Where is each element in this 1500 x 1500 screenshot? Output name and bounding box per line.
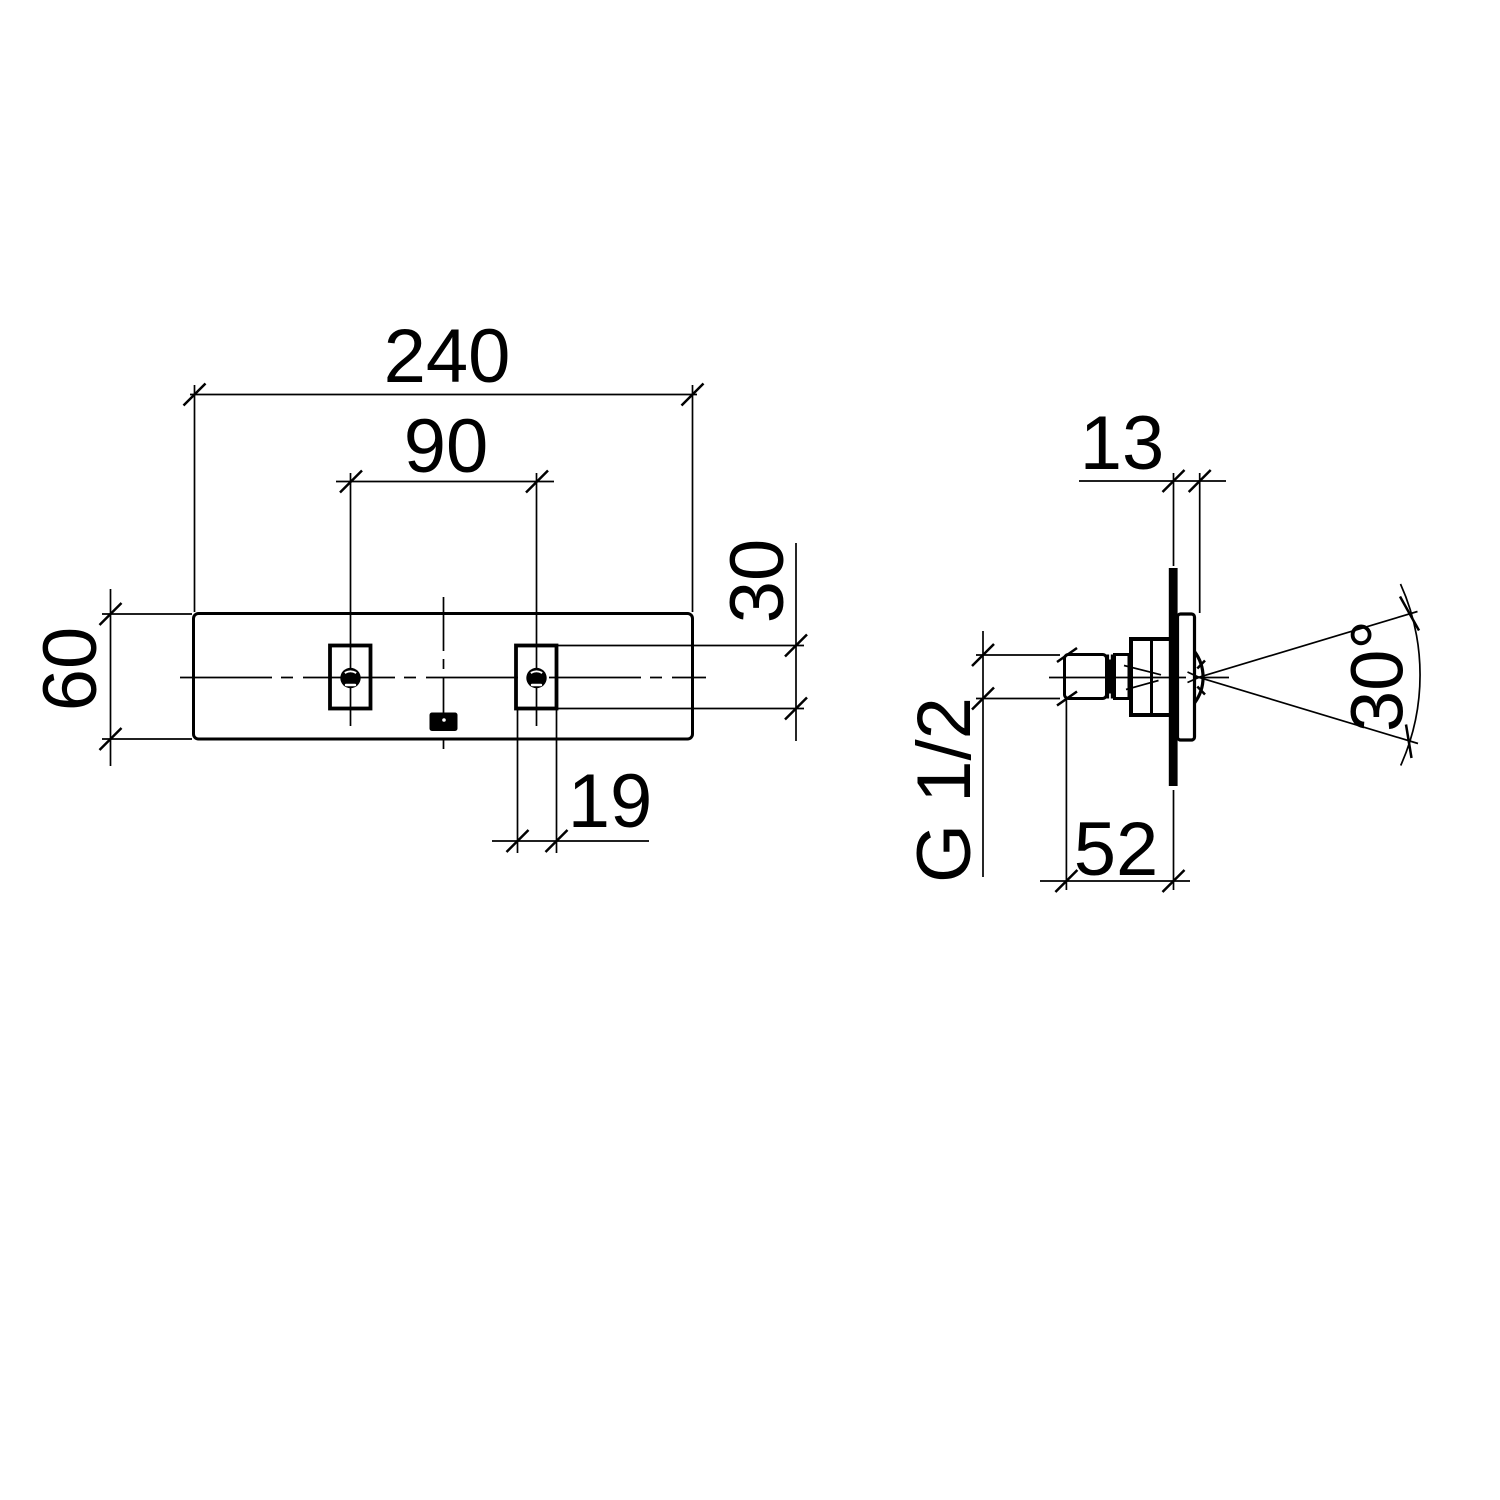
wire dimension line 52 — [1040, 880, 1190, 882]
wire extension line bottom 60 — [102, 738, 192, 740]
svg-text:19: 19 — [568, 759, 653, 844]
wire extension line left 19 — [517, 710, 519, 853]
node tick arc upper — [1400, 597, 1419, 631]
wire dimension line 13 — [1079, 480, 1226, 482]
node tick bottom 60 — [100, 728, 122, 750]
svg-text:30°: 30° — [1336, 620, 1419, 732]
node faceplate front outline 240x60 — [194, 614, 693, 740]
wire extension line right 240 — [692, 385, 694, 612]
wire spray cone upper line — [1199, 612, 1418, 678]
node tick right 13 — [1189, 470, 1211, 492]
node tick pipe corner bottom — [1057, 692, 1077, 706]
wire vertical centerline front view — [443, 597, 445, 752]
wire extension line top 60 — [102, 613, 192, 615]
wire dimension line G12 — [982, 631, 984, 877]
node tick top G12 — [972, 644, 994, 666]
wire extension line top 30 — [558, 645, 804, 647]
node tick pipe corner top — [1057, 648, 1077, 662]
wire dimension line 19 — [492, 840, 649, 842]
wire extension line bottom 30 — [558, 708, 804, 710]
svg-text:30: 30 — [715, 539, 800, 624]
wire horizontal centerline front view — [180, 677, 706, 679]
node dome tick lower — [1197, 687, 1205, 695]
node left valve window — [330, 646, 371, 709]
node tick top 30 — [785, 635, 807, 657]
node dome tick upper — [1197, 661, 1205, 669]
svg-text:60: 60 — [28, 627, 113, 712]
wire spray apex line lower — [1188, 677, 1200, 682]
wire valve body divider — [1150, 639, 1153, 715]
node tick left 90 — [340, 471, 362, 493]
wire extension line bottom G12 — [976, 698, 1060, 700]
node escutcheon plate side — [1178, 614, 1195, 740]
wire horizontal centerline side view — [1049, 677, 1229, 679]
wire dimension line 90 — [336, 481, 554, 483]
node tick left 19 — [507, 830, 529, 852]
wire extension line left 240 — [194, 385, 196, 612]
node tick bottom G12 — [972, 688, 994, 710]
node tick left 13 — [1163, 470, 1185, 492]
node tick right 52 — [1163, 870, 1185, 892]
node left screw — [340, 668, 360, 688]
node tick left 240 — [184, 384, 206, 406]
wire spray cone lower line — [1199, 677, 1418, 743]
wire angle arc 30deg — [1401, 584, 1421, 766]
wire spray back line lower — [1126, 681, 1159, 690]
node tick top 60 — [100, 603, 122, 625]
svg-text:G 1/2: G 1/2 — [902, 697, 987, 883]
svg-text:13: 13 — [1080, 401, 1165, 486]
node collar — [1115, 655, 1130, 699]
node seal ring black band — [1105, 655, 1115, 699]
wire extension line right 19 — [556, 710, 558, 853]
wire spray back line upper — [1124, 666, 1161, 675]
wire extension line right 13 — [1199, 473, 1201, 613]
node wall plate bar — [1169, 568, 1178, 786]
svg-text:90: 90 — [404, 404, 489, 489]
svg-text:240: 240 — [384, 314, 511, 399]
svg-text:52: 52 — [1074, 807, 1159, 892]
node tick right 240 — [682, 384, 704, 406]
node spout outlet slot — [430, 713, 458, 732]
node tick left 52 — [1055, 870, 1077, 892]
node right screw — [526, 668, 546, 688]
wire left bolt vertical extension line — [350, 473, 352, 726]
wire dimension line 30 — [795, 543, 797, 741]
node tick right 90 — [526, 471, 548, 493]
wire extension line top G12 — [976, 654, 1060, 656]
wire spray apex line upper — [1188, 672, 1200, 677]
node tick right 19 — [546, 830, 568, 852]
node tick arc lower — [1406, 725, 1412, 759]
node valve body — [1131, 639, 1172, 715]
node outlet dome — [1195, 652, 1204, 704]
node G1/2 threaded nipple — [1065, 655, 1107, 699]
wire right bolt vertical extension line — [536, 473, 538, 726]
wire extension line left 13 — [1173, 473, 1175, 566]
node right valve window — [516, 646, 557, 709]
wire dimension line 60 — [110, 589, 112, 766]
node tick bottom 30 — [785, 698, 807, 720]
wire extension line right 52 — [1173, 790, 1175, 890]
wire extension line left 52 — [1065, 700, 1067, 890]
wire dimension line 240 — [190, 394, 697, 396]
